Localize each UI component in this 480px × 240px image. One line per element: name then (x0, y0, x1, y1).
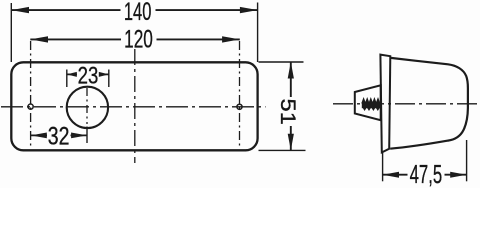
svg-text:51: 51 (276, 99, 300, 125)
svg-text:120: 120 (124, 25, 153, 53)
svg-text:140: 140 (124, 0, 152, 26)
svg-text:47,5: 47,5 (410, 159, 443, 188)
svg-text:32: 32 (48, 122, 70, 150)
svg-text:23: 23 (78, 62, 99, 89)
